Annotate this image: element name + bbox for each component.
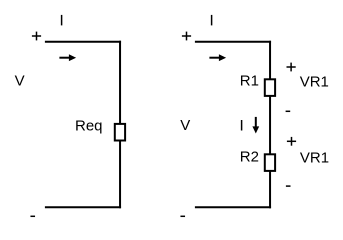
svg-text:VR1: VR1	[300, 74, 329, 91]
wire: left bottom horizontal	[45, 206, 121, 208]
wire: right top horizontal	[195, 41, 271, 43]
plus terminal (left source)	[32, 35, 41, 37]
wire: right vertical segment below R2	[269, 171, 271, 208]
svg-text:R2: R2	[240, 149, 259, 166]
svg-text:V: V	[15, 73, 25, 90]
svg-text:Req: Req	[75, 117, 103, 134]
plus sign VR1 (lower)	[287, 140, 296, 142]
minus sign VR1 (upper)	[286, 110, 291, 112]
svg-text:VR1: VR1	[300, 150, 329, 167]
plus sign VR1 (upper)	[287, 66, 296, 68]
svg-text:R1: R1	[240, 73, 259, 90]
wire: left right vertical upper	[119, 41, 121, 124]
label I (middle current)	[241, 120, 243, 131]
current arrow (right, rightward)	[209, 54, 226, 61]
plus terminal (right source)	[182, 35, 191, 37]
minus terminal (right source)	[180, 215, 185, 217]
label I (left top current)	[61, 15, 63, 26]
minus terminal (left source)	[30, 215, 35, 217]
resistor R1	[265, 79, 275, 96]
wire: right vertical segment between R1 and R2	[269, 96, 271, 154]
minus sign VR1 (lower)	[286, 185, 291, 187]
resistor R2	[265, 154, 275, 171]
wire: right bottom horizontal	[195, 206, 271, 208]
svg-text:V: V	[180, 117, 190, 134]
current arrow (left, rightward)	[59, 54, 76, 61]
wire: left top horizontal	[45, 41, 121, 43]
current arrow (middle, downward)	[252, 117, 259, 134]
wire: left right vertical lower	[119, 141, 121, 209]
label I (right top current)	[211, 15, 213, 26]
wire: right vertical segment above R1	[269, 41, 271, 79]
resistor Req	[115, 124, 125, 141]
